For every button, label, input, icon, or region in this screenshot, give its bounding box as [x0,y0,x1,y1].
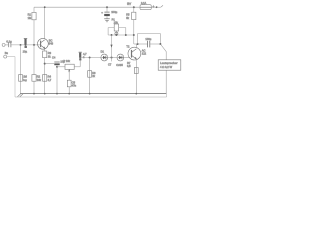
svg-text:10k: 10k [37,78,42,82]
node R6 branch [89,57,91,59]
wire T2 emitter down [135,60,137,94]
resistor R4 [43,75,47,82]
svg-text:Lautsprecher: Lautsprecher [160,61,178,65]
node riser top [79,57,81,59]
wire R5 down to collector node [133,20,135,44]
wire D2 to T2 base [124,57,130,59]
svg-text:D1: D1 [101,50,105,54]
capacitor C2 plates [104,11,109,13]
resistor R2 [32,75,36,82]
svg-text:10µ: 10µ [23,49,28,53]
wire wiper to detector junction [111,35,113,58]
svg-text:122: 122 [142,52,147,56]
svg-text:4 Ω 0,2 W: 4 Ω 0,2 W [160,65,172,69]
wire rail down to R1 [33,7,35,12]
svg-text:P 10k: P 10k [63,59,70,63]
capacitor C2 lead [106,7,108,11]
node P1 center [115,32,118,35]
capacitor C3 at input node [25,44,27,46]
wire wiper down [68,71,70,80]
resistor R5 [132,12,136,19]
wiper arrowhead [110,45,112,48]
wire cap to corner [150,43,161,45]
resistor R0 [19,75,23,82]
wire R6 branch down [89,58,91,94]
wire battery stub [157,6,161,8]
svg-text:548: 548 [49,41,54,45]
wire C5 to rail [68,87,70,94]
svg-text:9V: 9V [127,2,132,6]
node C4 pot junction [56,66,58,68]
node emitter branch [44,63,46,65]
transistor T2 [128,47,141,60]
svg-text:0,1A: 0,1A [141,2,146,5]
wire input terminal 1 [2,43,5,46]
wire pot right to riser [74,66,80,68]
potentiometer P1 body [114,24,118,31]
wire input branch down [20,45,22,94]
ground symbol mid [104,18,110,20]
node wiper top [111,34,113,36]
capacitor C1 plates [8,43,10,48]
svg-text:C4: C4 [52,55,56,59]
wire D1 to D2 [108,57,117,59]
wire base node down to R2 [33,45,35,75]
wire C1 to base node [11,44,41,46]
svg-text:0,5: 0,5 [127,64,131,68]
wire C2 to ground [106,16,108,19]
wire diagonal to earphone [160,44,166,60]
svg-text:0,1µ: 0,1µ [6,40,12,44]
wire P1 bottom line [108,34,134,36]
diode D1 [101,54,108,61]
wire collector node [134,43,147,45]
earphone box [158,60,181,70]
ground symbol left [17,94,23,97]
node rail R5 junction [133,6,135,8]
svg-text:10k: 10k [114,20,119,24]
capacitor C4 [54,61,59,63]
capacitor C5 on wiper [67,80,71,87]
svg-text:C7: C7 [108,63,112,67]
wire R1 to base node [33,20,35,45]
svg-text:log: log [23,78,27,82]
node rail C2 junction [106,6,108,8]
wire earphone to rail [165,70,167,93]
node input branch [20,44,22,46]
pot wiper arrow [68,69,70,72]
wire T2 collector up [135,44,137,48]
svg-text:OA95: OA95 [116,63,123,67]
resistor R7 [134,68,138,74]
potentiometer P2 body [65,64,74,69]
svg-text:Bu: Bu [5,51,9,55]
wire T1 emitter to R3 [44,49,46,51]
wire output loop [138,34,161,44]
wire detector line left [80,57,101,59]
wire pot riser up to detector line [79,58,81,67]
wire R3 down to rail [44,58,46,94]
wire top supply rail [34,6,140,8]
wire R2 to rail [33,81,35,93]
wire T1 collector to rail [44,7,46,39]
node battery plus [156,6,158,8]
resistor R3 [43,51,47,58]
svg-text:100µ: 100µ [145,37,151,41]
wire stub below junction [111,58,113,62]
wire emitter node to C4 [45,63,55,65]
capacitor C8 [147,41,149,48]
svg-text:4,7: 4,7 [48,78,52,82]
diode D2 [117,54,124,61]
node detector junction [111,57,113,59]
node base T1 [33,44,35,46]
fuse F1 [140,5,151,10]
wire P1 loop [108,28,126,35]
wire to pot P2 [57,66,65,68]
wire input terminal 2 [4,55,7,58]
capacitor C6 above riser [79,51,82,53]
transistor T1 [38,38,49,49]
resistor R1 [32,12,36,19]
wire rail after fuse [151,6,156,8]
wire bottom ground rail [20,93,166,95]
resistor R6 [88,71,92,78]
svg-text:+: + [101,10,103,14]
wire C4 down [56,65,58,93]
svg-text:47n: 47n [72,84,77,88]
svg-text:1M: 1M [28,16,32,20]
wire bottom return line [15,94,167,97]
wire rail to R5 [133,7,135,12]
wire P1 center leg [115,31,117,35]
svg-text:100µ: 100µ [111,10,117,14]
